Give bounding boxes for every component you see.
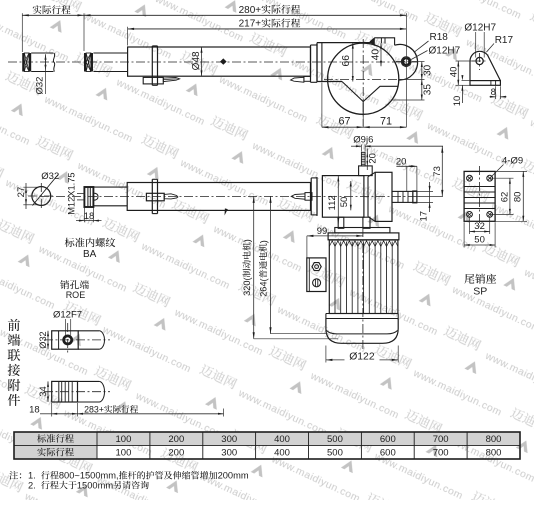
svg-text:800~1500mm,: 800~1500mm,: [59, 471, 119, 481]
label M12X1.75: [67, 172, 77, 214]
svg-text:30: 30: [423, 64, 434, 76]
svg-text:73: 73: [432, 166, 443, 177]
clevis pin hole: [403, 58, 410, 65]
rod end view circle: [32, 187, 51, 206]
fin zigzag: [329, 241, 398, 247]
svg-text:17: 17: [418, 211, 429, 222]
svg-text:100: 100: [116, 434, 132, 445]
bracket hole: [476, 57, 483, 64]
svg-text:200mm: 200mm: [218, 471, 249, 481]
gearbox body side view: [322, 176, 364, 218]
dim 17: [417, 190, 433, 192]
motor end cap: [326, 319, 398, 344]
svg-text:280+: 280+: [239, 5, 262, 16]
plate screws: [467, 175, 473, 181]
outer tube top view: [128, 47, 311, 76]
svg-text:400: 400: [274, 448, 290, 459]
thread stud tip: [93, 193, 98, 200]
dim 18 thread: [83, 208, 85, 223]
rear housing block: [375, 172, 392, 221]
dimension row1 280+stroke: [84, 14, 406, 16]
svg-text:34: 34: [38, 386, 48, 396]
clevis ear lobe: [395, 44, 418, 80]
svg-text:300: 300: [221, 434, 237, 445]
stroke table: [14, 432, 520, 445]
rod extended cylinder with break: [31, 52, 53, 54]
svg-text:200: 200: [168, 448, 184, 459]
dim 20 rear: [406, 166, 408, 191]
dim 40 flange: [380, 43, 382, 66]
dims 30 35: [417, 61, 425, 63]
notes: [9, 471, 18, 480]
svg-text:62: 62: [499, 192, 510, 203]
svg-text:M12X1.75: M12X1.75: [67, 172, 77, 214]
dims 18 and 283+stroke: [51, 403, 53, 417]
top view actuator centerline: [8, 61, 419, 63]
svg-text:264(: 264(: [258, 278, 268, 296]
release latch top view: [143, 77, 163, 84]
dim 32 plate: [469, 216, 471, 234]
ear centermark: [396, 61, 417, 63]
svg-text:40: 40: [449, 67, 460, 78]
attachment A centerlines: [44, 339, 110, 341]
rod end extended position block: [22, 53, 24, 72]
svg-text:18: 18: [84, 211, 95, 222]
svg-text:ROE: ROE: [66, 290, 86, 300]
plate serration lines: [464, 186, 495, 188]
svg-text:18: 18: [29, 404, 40, 415]
svg-text:400: 400: [274, 434, 290, 445]
svg-text:66: 66: [341, 55, 352, 67]
svg-text:320(: 320(: [242, 277, 252, 295]
clutch cone: [367, 177, 369, 217]
svg-text:1500mm: 1500mm: [77, 480, 113, 490]
svg-text:71: 71: [380, 116, 392, 128]
svg-text:): ): [258, 240, 268, 243]
dim 264 standard motor: [270, 196, 272, 333]
junction box: [307, 258, 326, 292]
svg-text:R18: R18: [430, 32, 449, 43]
gearbox release latch side view: [305, 193, 312, 201]
dim 8 bracket: [495, 86, 497, 99]
gearbox release latch top view: [304, 76, 311, 81]
output shaft: [361, 152, 365, 166]
dim 20 shaft: [366, 149, 368, 171]
svg-text:Ø12H7: Ø12H7: [464, 22, 496, 33]
svg-text:Ø32: Ø32: [41, 171, 59, 182]
svg-text:200: 200: [168, 434, 184, 445]
svg-text:SP: SP: [473, 286, 487, 298]
collar side view: [151, 179, 153, 213]
attachment thread tube: [78, 380, 100, 382]
svg-text:20: 20: [396, 156, 407, 167]
motor flange plate: [328, 233, 399, 240]
svg-text:800: 800: [486, 448, 502, 459]
terminal screw: [313, 279, 321, 287]
svg-text:100: 100: [116, 448, 132, 459]
dims 67 71: [321, 83, 323, 128]
svg-text:1.: 1.: [28, 471, 36, 481]
svg-text:2.: 2.: [28, 480, 36, 490]
svg-text:700: 700: [433, 448, 449, 459]
dim 99: [307, 235, 363, 237]
outer tube side view: [127, 183, 310, 211]
dim 50: [350, 181, 352, 210]
dim 62: [490, 177, 514, 179]
gearbox housing top view: [317, 42, 373, 44]
dim 50 plate: [463, 222, 465, 247]
svg-text:50: 50: [474, 235, 485, 246]
flat slash: [32, 175, 58, 206]
bracket base: [470, 81, 500, 86]
svg-text:600: 600: [380, 434, 396, 445]
svg-text:32: 32: [474, 221, 485, 232]
side view centerline: [40, 195, 420, 197]
svg-text:80: 80: [513, 192, 524, 203]
dim 40 bracket: [456, 60, 477, 62]
label tail pin mount SP: [465, 274, 475, 284]
dim 10 bracket: [462, 80, 471, 82]
gearbox flange plate: [335, 228, 390, 233]
bracket body: [470, 51, 500, 80]
release latch side view: [146, 193, 164, 201]
dim O122: [325, 346, 327, 363]
label front attachments vertical: [8, 319, 20, 331]
dim 112: [337, 176, 339, 224]
front thread bushing: [84, 187, 93, 207]
svg-text:217+: 217+: [239, 19, 262, 30]
cable gland hex: [312, 263, 321, 271]
svg-text:99: 99: [317, 226, 328, 237]
svg-text:Ø32: Ø32: [38, 331, 48, 348]
dim 34: [47, 381, 49, 402]
dim 80: [495, 170, 527, 172]
push rod: [93, 52, 127, 54]
svg-text:27: 27: [16, 187, 27, 198]
svg-text:): ): [242, 239, 252, 242]
rear housing ribs top: [370, 38, 394, 46]
dim 66: [352, 43, 354, 81]
svg-text:40: 40: [371, 49, 382, 61]
svg-text:4-Ø9: 4-Ø9: [502, 155, 523, 166]
svg-text:800: 800: [486, 434, 502, 445]
svg-text:Ø9j6: Ø9j6: [353, 134, 373, 145]
rear pin mount plate: [464, 171, 495, 221]
circle centerlines: [362, 39, 364, 126]
dim 320 brake motor: [253, 196, 255, 338]
svg-text:BA: BA: [83, 249, 97, 260]
dim O32 rod: [45, 56, 47, 69]
output shaft boss: [359, 166, 373, 176]
dim O32 attachment: [47, 331, 49, 349]
dim 73: [417, 195, 443, 197]
rod retracted block: [84, 53, 86, 72]
svg-text:500: 500: [327, 448, 343, 459]
gearbox collar: [310, 45, 312, 82]
attachment pin-hole body: [52, 331, 78, 349]
dimension row1 actual-stroke segment: [22, 14, 84, 16]
label standard internal thread BA: [65, 238, 75, 247]
gearbox mounting legs: [338, 217, 344, 228]
svg-text:10: 10: [452, 96, 463, 107]
svg-text:Ø12F7: Ø12F7: [53, 310, 82, 321]
table header labels: [37, 434, 46, 443]
svg-text:35: 35: [423, 84, 434, 96]
dimension row2 217+stroke: [128, 28, 407, 30]
weld arrow: [225, 208, 228, 215]
extension lines top dims: [21, 13, 23, 52]
dim 27: [23, 186, 37, 188]
svg-text:600: 600: [380, 448, 396, 459]
grease point marker: [220, 58, 227, 64]
attachment thread body: [52, 381, 78, 402]
svg-text:R17: R17: [495, 35, 514, 46]
attachment pin-hole tube: [78, 330, 99, 332]
svg-text:Ø12H7: Ø12H7: [429, 46, 461, 57]
svg-text:8: 8: [491, 87, 496, 98]
motor flange circle: [328, 43, 399, 114]
svg-text:20: 20: [367, 153, 378, 164]
svg-text:112: 112: [327, 195, 338, 210]
svg-text:300: 300: [221, 448, 237, 459]
motor centerline: [362, 228, 364, 351]
svg-text:Ø32: Ø32: [34, 77, 45, 95]
pin hole bushing: [64, 336, 72, 344]
svg-text:283+: 283+: [84, 404, 104, 414]
svg-text:50: 50: [339, 197, 350, 208]
svg-text:67: 67: [339, 116, 351, 128]
tube collar: [151, 46, 153, 85]
gearbox collar side: [310, 178, 312, 215]
plate centerline: [479, 166, 481, 227]
inner tube side view: [93, 186, 127, 188]
svg-text:500: 500: [327, 434, 343, 445]
motor band: [326, 313, 398, 315]
label pin hole end ROE: [60, 280, 69, 289]
svg-text:700: 700: [433, 434, 449, 445]
svg-text:Ø48: Ø48: [191, 51, 202, 70]
flange notch: [342, 82, 399, 102]
rear shaft: [392, 191, 417, 202]
dim O48: [201, 47, 203, 76]
svg-text:Ø122: Ø122: [349, 351, 375, 362]
motor finned body: [329, 240, 398, 314]
